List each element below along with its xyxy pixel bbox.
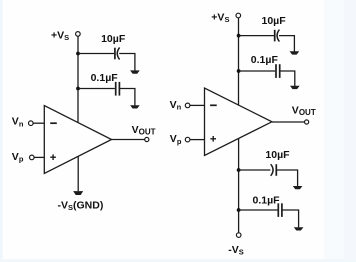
svg-text:0.1µF: 0.1µF	[253, 195, 281, 207]
capacitor C3 10µF (polarized)	[275, 30, 280, 42]
label Vn (right)	[170, 99, 182, 112]
label C2 value 0.1µF	[91, 72, 119, 84]
junction J6 (right C6 tap)	[237, 208, 241, 212]
wire C3 row left segment	[239, 35, 274, 37]
svg-text:0.1µF: 0.1µF	[251, 54, 279, 66]
wire C2 row left segment	[78, 88, 115, 90]
wire Vp input (left)	[34, 156, 44, 158]
label C4 value 0.1µF	[251, 54, 279, 66]
node -Vs terminal (right)	[236, 233, 241, 238]
junction J3 (right C3 tap)	[237, 34, 241, 38]
node +Vs (left terminal)	[76, 32, 81, 37]
op-amp U2	[205, 88, 272, 156]
right margin tint	[324, 0, 356, 262]
capacitor C1 10µF (polarized)	[115, 48, 120, 60]
node Vn terminal (left)	[29, 121, 34, 126]
U1 non-inverting input marker (plus)	[50, 154, 56, 160]
wire -Vs (left, op-amp bottom edge down)	[77, 156, 79, 191]
wire C1 row right segment	[119, 54, 135, 71]
node Vp terminal (right)	[185, 137, 190, 142]
wire +Vs rail (left, terminal to op-amp top edge)	[77, 36, 79, 123]
junction J1 (left C1 tap)	[76, 52, 80, 56]
op-amp U1	[44, 106, 111, 174]
ground G3	[290, 51, 300, 54]
wire Vp input (right)	[190, 139, 205, 141]
label Vout (right)	[292, 104, 316, 117]
label Vn (left)	[12, 116, 24, 129]
junction J5 (right C5 tap)	[237, 168, 241, 172]
ground G2	[130, 105, 140, 108]
ground G4	[290, 86, 300, 89]
node Vp terminal (left)	[30, 155, 35, 160]
left margin tint	[0, 0, 3, 262]
U2 inverting input marker (minus)	[210, 104, 217, 106]
ground G5	[293, 186, 303, 189]
wire C2 row right segment	[119, 89, 134, 106]
wire -Vs rail (right, op-amp bottom edge to terminal)	[238, 139, 240, 233]
label Vp (left)	[12, 151, 24, 164]
node Vout terminal (right)	[305, 120, 309, 124]
wire C4 row right segment	[280, 71, 295, 86]
node Vn terminal (right)	[185, 103, 190, 108]
capacitor C4 0.1µF	[276, 64, 280, 78]
svg-text:0.1µF: 0.1µF	[91, 72, 119, 84]
wire C6 row left segment	[239, 209, 278, 211]
wire C6 row right segment	[282, 210, 299, 227]
node Vout terminal (left)	[145, 137, 149, 141]
label C3 value 10µF	[262, 15, 287, 27]
svg-text:-VS(GND): -VS(GND)	[58, 200, 104, 213]
wire C3 row right segment	[279, 36, 294, 52]
U2 non-inverting input marker (plus)	[210, 136, 216, 142]
wire C1 row left segment	[78, 53, 114, 55]
label -Vs(GND)	[58, 200, 104, 213]
capacitor C6 0.1µF	[278, 203, 282, 217]
junction J4 (right C4 tap)	[237, 69, 241, 73]
node +Vs (right terminal)	[236, 13, 241, 18]
wire Vn input (left)	[33, 122, 44, 124]
svg-text:10µF: 10µF	[265, 149, 290, 161]
label C1 value 10µF	[101, 33, 126, 45]
label C6 value 0.1µF	[253, 195, 281, 207]
label Vp (right)	[170, 133, 182, 146]
label Vout (left)	[132, 124, 156, 137]
wire C5 row right segment	[276, 170, 297, 186]
wire C5 row left segment	[239, 169, 271, 171]
svg-text:10µF: 10µF	[101, 33, 126, 45]
label +Vs (right)	[211, 11, 229, 24]
ground G6	[294, 227, 304, 230]
wire Vout (right)	[272, 121, 305, 123]
capacitor C2 0.1µF	[116, 82, 120, 96]
wire C4 row left segment	[239, 70, 276, 72]
bottom margin tint	[0, 259, 356, 262]
wire Vn input (right)	[190, 104, 205, 106]
ground G1	[130, 70, 140, 73]
label +Vs (left)	[51, 29, 69, 42]
capacitor C5 10µF (polarized, reversed)	[271, 164, 277, 176]
svg-text:10µF: 10µF	[262, 15, 287, 27]
label C5 value 10µF	[265, 149, 290, 161]
wire +Vs rail (right, terminal to op-amp top edge)	[238, 18, 240, 106]
ground arrow -Vs(GND)	[73, 191, 83, 195]
label -Vs (right)	[228, 244, 244, 257]
wire Vout (left)	[112, 139, 145, 141]
junction J2 (left C2 tap)	[76, 87, 80, 91]
U1 inverting input marker (minus)	[50, 122, 57, 124]
